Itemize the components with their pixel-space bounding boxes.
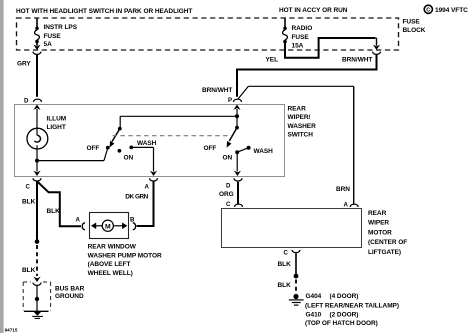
svg-text:FUSE: FUSE <box>44 33 62 40</box>
svg-text:BLK: BLK <box>22 199 36 206</box>
svg-text:A: A <box>145 184 150 191</box>
svg-text:INSTR LPS: INSTR LPS <box>44 24 78 31</box>
svg-text:94715: 94715 <box>5 328 18 333</box>
svg-text:WIPER/: WIPER/ <box>288 114 311 121</box>
svg-text:B: B <box>130 217 135 224</box>
svg-text:BRN/WHT: BRN/WHT <box>202 87 232 94</box>
svg-text:M: M <box>105 223 111 230</box>
svg-text:HOT WITH HEADLIGHT SWITCH IN P: HOT WITH HEADLIGHT SWITCH IN PARK OR HEA… <box>16 8 192 15</box>
svg-text:5A: 5A <box>44 41 53 48</box>
svg-text:(ABOVE LEFT: (ABOVE LEFT <box>88 261 131 268</box>
svg-text:(LEFT REAR/NEAR TAILLAMP): (LEFT REAR/NEAR TAILLAMP) <box>305 302 399 309</box>
svg-text:BLOCK: BLOCK <box>403 27 426 34</box>
svg-text:DK GRN: DK GRN <box>125 193 148 200</box>
svg-text:P: P <box>228 97 232 104</box>
svg-text:WASHER: WASHER <box>288 123 317 130</box>
svg-text:BLK: BLK <box>278 261 292 268</box>
svg-text:WASH: WASH <box>137 140 157 147</box>
svg-text:15A: 15A <box>292 42 304 49</box>
svg-text:BUS BAR: BUS BAR <box>55 285 85 292</box>
svg-text:(2 DOOR): (2 DOOR) <box>330 312 359 319</box>
svg-text:WHEEL WELL): WHEEL WELL) <box>88 270 133 277</box>
svg-text:WASHER PUMP MOTOR: WASHER PUMP MOTOR <box>88 252 162 259</box>
svg-text:FUSE: FUSE <box>292 34 310 41</box>
svg-text:BLK: BLK <box>22 267 36 274</box>
svg-text:1994 VFTC: 1994 VFTC <box>435 7 468 14</box>
svg-text:BRN/WHT: BRN/WHT <box>342 57 372 64</box>
svg-text:WIPER: WIPER <box>368 220 389 227</box>
svg-text:OFF: OFF <box>204 145 217 152</box>
svg-text:BRN: BRN <box>336 186 350 193</box>
svg-text:(CENTER OF: (CENTER OF <box>368 239 407 246</box>
svg-text:ON: ON <box>223 154 233 161</box>
svg-text:ILLUM: ILLUM <box>47 116 67 123</box>
svg-text:HOT IN ACCY OR RUN: HOT IN ACCY OR RUN <box>279 7 348 14</box>
svg-text:MOTOR: MOTOR <box>368 229 392 236</box>
svg-text:YEL: YEL <box>266 57 279 64</box>
svg-text:G404: G404 <box>306 293 322 300</box>
svg-text:SWITCH: SWITCH <box>288 131 314 138</box>
svg-text:BLK: BLK <box>47 208 61 215</box>
svg-text:C: C <box>226 201 231 208</box>
svg-text:C: C <box>26 183 31 190</box>
svg-text:OFF: OFF <box>87 145 100 152</box>
svg-text:LIGHT: LIGHT <box>47 124 66 131</box>
svg-text:C: C <box>426 7 430 13</box>
svg-text:RADIO: RADIO <box>292 25 313 32</box>
svg-text:GROUND: GROUND <box>55 293 84 300</box>
svg-text:REAR WINDOW: REAR WINDOW <box>88 243 137 250</box>
svg-text:(TOP OF HATCH DOOR): (TOP OF HATCH DOOR) <box>305 320 378 327</box>
svg-text:REAR: REAR <box>288 106 307 113</box>
svg-text:WASH: WASH <box>254 148 274 155</box>
svg-text:A: A <box>76 217 81 224</box>
svg-text:D: D <box>226 182 231 189</box>
svg-text:LIFTGATE): LIFTGATE) <box>368 249 401 256</box>
svg-text:ON: ON <box>124 154 134 161</box>
svg-text:G410: G410 <box>306 312 322 319</box>
svg-text:(4 DOOR): (4 DOOR) <box>330 293 359 300</box>
svg-text:D: D <box>24 97 29 104</box>
svg-text:ORG: ORG <box>219 191 234 198</box>
svg-text:GRY: GRY <box>17 61 31 68</box>
svg-text:REAR: REAR <box>368 210 387 217</box>
svg-text:BLK: BLK <box>278 282 292 289</box>
svg-text:C: C <box>284 249 289 256</box>
svg-text:A: A <box>344 202 349 209</box>
svg-text:FUSE: FUSE <box>403 19 421 26</box>
